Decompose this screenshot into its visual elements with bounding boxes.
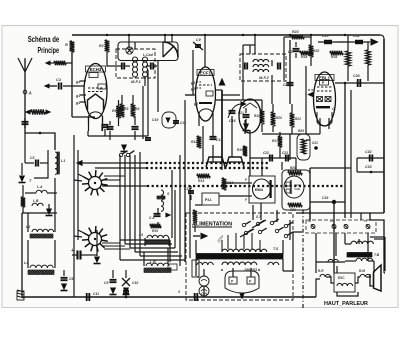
svg-text:EM4: EM4: [255, 188, 264, 192]
svg-text:C19: C19: [322, 196, 328, 200]
tube EBL1: [314, 72, 336, 126]
wire ECF1 grid left: [185, 94, 196, 96]
wire x158 vertical: [157, 60, 159, 112]
tube EBF2 detector: [239, 99, 261, 133]
transformer MF1 dashed box: [116, 49, 155, 78]
svg-text:C.H: C.H: [201, 292, 207, 296]
rectifier plate P right: [247, 277, 255, 284]
pin plate box of ECF1: [206, 91, 213, 96]
wire stubs into power box: [252, 205, 254, 220]
coil L2 with core: [32, 229, 37, 232]
coil L5 with core: [147, 235, 152, 238]
terminal 3: [344, 225, 348, 229]
svg-text:C11: C11: [93, 292, 99, 296]
dashed gang linkage line 2: [146, 167, 270, 169]
coil L4 with core: [30, 265, 36, 268]
ground C10 osc: [124, 288, 129, 293]
junction dots top bus: [106, 34, 108, 36]
terminal 4: [366, 225, 370, 229]
wire left lower frame: [21, 213, 23, 297]
svg-text:C16: C16: [229, 119, 237, 123]
svg-text:C30: C30: [353, 74, 360, 78]
resistor R29: [288, 171, 302, 176]
svg-text:C1: C1: [56, 77, 62, 82]
svg-text:A: A: [28, 91, 32, 96]
wire horizontal y205 lower mid: [195, 204, 202, 206]
wire dial feeds: [128, 35, 130, 48]
svg-text:C.A: C.A: [149, 216, 155, 220]
wire x296 lower vertical: [295, 158, 297, 170]
pin g1 bar of ECF1: [199, 102, 212, 104]
capacitor C13: [210, 136, 217, 138]
capacitor C3: [25, 162, 34, 164]
resistor R19: [243, 146, 247, 156]
svg-text:C3: C3: [30, 156, 34, 160]
svg-text:R4: R4: [135, 107, 139, 111]
resistor R top-left on bus: [70, 41, 75, 52]
wire C12 to bottom bus: [73, 255, 75, 297]
terminal 2: [332, 225, 336, 229]
transformer MF2 dashed box: [240, 54, 286, 81]
wire x310 down to terminals: [309, 210, 311, 220]
box P.U.: [202, 193, 219, 205]
resistor R3: [120, 104, 125, 117]
capacitor C19 blob: [310, 201, 345, 203]
svg-text:CV: CV: [196, 38, 202, 42]
resistor R4: [131, 104, 136, 117]
wire L5 to bundle: [144, 238, 146, 246]
P.U. terminal strip dashed: [306, 220, 376, 233]
pin g1 of ECH3: [80, 94, 86, 96]
wire ECH3 cathode legs: [88, 124, 90, 131]
svg-text:R15: R15: [152, 229, 158, 233]
wire horizontal y196 from PU: [219, 195, 243, 197]
wire top-right net: [284, 36, 291, 38]
svg-text:M.F.1: M.F.1: [131, 79, 142, 84]
tuning dial quadrant with needle: [163, 42, 178, 57]
svg-text:C10: C10: [132, 281, 138, 285]
capacitor C1: [45, 84, 49, 88]
ground C9 osc: [111, 288, 116, 293]
svg-text:g3: g3: [190, 81, 195, 85]
wire top supply bus: [72, 34, 380, 36]
trimmer box CAD: [168, 264, 177, 270]
svg-text:g4: g4: [75, 80, 80, 84]
wire mid horizontal y100 to R21: [262, 100, 292, 104]
power section dashed box: [186, 213, 293, 300]
wire horizontal y95 segment: [222, 94, 240, 96]
pin g2 of ECF1: [196, 87, 201, 89]
wire x213 vertical: [212, 126, 214, 138]
wire grid feed to ECH3: [72, 116, 95, 118]
capacitor C9 mixer: [132, 126, 139, 128]
svg-text:HAUT_PARLEUR: HAUT_PARLEUR: [324, 301, 368, 307]
box around EM4: [249, 176, 275, 203]
arrow mains input: [193, 235, 200, 237]
wire speaker feed verticals: [315, 233, 317, 262]
resistor R1 antenna shunt: [26, 110, 30, 114]
cathode loop of EBL1: [317, 112, 332, 126]
svg-text:C22: C22: [263, 151, 269, 155]
wire between C28 and C32: [338, 41, 348, 43]
wire x203 vertical to bus: [202, 126, 204, 162]
transformer T.S primary coil taps: [227, 235, 229, 249]
transformer T.S filament winding left: [197, 262, 202, 265]
pin arrows into EBL1: [308, 89, 313, 91]
dial lamp box: [118, 42, 178, 61]
svg-text:R17: R17: [272, 139, 278, 143]
svg-text:R22: R22: [313, 49, 319, 53]
output transformer T.B primary: [351, 241, 357, 244]
pilot lamp upper: [199, 276, 209, 286]
wire CV trimmer down to ECF1 grid: [192, 50, 194, 95]
svg-text:R.M: R.M: [359, 269, 365, 273]
svg-text:R.R: R.R: [318, 269, 324, 273]
svg-text:R23: R23: [292, 30, 299, 34]
svg-text:R21: R21: [295, 117, 301, 121]
trimmer capacitor CV: [193, 42, 203, 50]
svg-text:R24: R24: [301, 55, 307, 59]
dial lamp: [126, 47, 133, 54]
wire left vertical from bus: [71, 52, 73, 117]
wire x290 y175 to alim: [289, 134, 291, 160]
diode plates of EBL1: [317, 97, 323, 102]
wire vertical x255: [254, 45, 256, 54]
rectifier tube 1883: [225, 271, 259, 293]
tube ECF1: [196, 67, 216, 121]
svg-text:C19: C19: [152, 118, 158, 122]
wire bundle risers right: [169, 240, 171, 262]
arrow down left: [48, 204, 50, 209]
coil MF2 secondary: [253, 69, 258, 72]
wire under ECH3 bus y136: [87, 131, 89, 136]
svg-text:L5: L5: [139, 233, 143, 237]
wire gang to detector: [244, 146, 246, 156]
svg-text:3: 3: [178, 290, 180, 294]
ground C21: [245, 119, 247, 124]
dashed gang linkage line 1: [146, 162, 270, 164]
svg-text:EXC: EXC: [338, 276, 345, 280]
capacitor C32 top: [348, 41, 370, 43]
capacitor C21: [243, 114, 250, 116]
resistor R13 under gang: [197, 174, 210, 179]
coil L1 with core: [55, 152, 58, 158]
output transformer T.B core: [347, 253, 372, 258]
wire vertical x272 MF2 right down: [271, 75, 273, 104]
resistor R25: [330, 51, 343, 55]
svg-text:70: 70: [364, 219, 368, 223]
resistor R16: [193, 210, 197, 222]
transformer T.S primary coil: [222, 249, 228, 252]
capacitor C top-left coupling: [46, 61, 50, 65]
capacitor MF1 left trimmer: [121, 63, 123, 70]
wire x172 low vertical: [171, 170, 173, 238]
svg-text:P.U.: P.U.: [205, 198, 212, 202]
capacitor C8 below ECH3: [102, 124, 109, 126]
speaker cone: [370, 274, 374, 286]
capacitor C11 on bus: [86, 293, 88, 301]
choke bumps on speaker line: [328, 259, 333, 262]
transformer T.S core: [196, 254, 283, 260]
ground arrow below oscillator: [96, 252, 98, 256]
wave-change switch rotor S1: [89, 177, 102, 190]
wave-change switch rotor S2: [89, 233, 102, 246]
capacitor C30: [357, 79, 359, 87]
svg-text:EBL1: EBL1: [319, 75, 331, 80]
terminal 1: [311, 225, 315, 229]
resistor R21 vertical: [290, 113, 295, 127]
dashed gang linkage line 3: [147, 185, 345, 187]
svg-text:T.S: T.S: [273, 247, 279, 251]
capacitor C-H on bus: [194, 293, 196, 301]
wire power section verticals: [195, 240, 197, 254]
wire EBL1 cathode returns: [319, 129, 321, 134]
gang linkage line 3 solid part: [102, 185, 147, 187]
arrow to output: [371, 39, 378, 45]
terminal Terre bottom left: [17, 291, 24, 300]
wire left mid vertical x78: [77, 150, 79, 240]
wire speaker top feed: [370, 236, 385, 238]
anode structure of ECH3: [88, 94, 104, 110]
wire right speaker top link: [374, 238, 384, 240]
wire horizontal y100 grid line: [216, 99, 243, 101]
wire right column x345: [344, 83, 346, 218]
ground left with arrow: [21, 163, 23, 175]
svg-text:R20: R20: [276, 116, 282, 120]
resistor R2 from bus: [105, 40, 110, 52]
resistor R22 vertical: [309, 45, 314, 57]
svg-text:C27: C27: [288, 50, 295, 54]
resistor R5 left: [21, 197, 25, 207]
wire y213 dashes right: [296, 212, 370, 214]
node A antenna terminal: [23, 90, 27, 94]
capacitor C24: [287, 82, 294, 84]
wire HT output right: [283, 232, 302, 271]
svg-text:g2: g2: [190, 87, 195, 91]
wire MF2 leads: [249, 45, 251, 54]
svg-text:C13: C13: [216, 138, 222, 142]
wire speaker bottom loop: [316, 279, 320, 297]
pilot lamp lower: [199, 286, 209, 296]
variable capacitor gang section 2: [226, 157, 244, 167]
coil MF2 primary: [253, 59, 258, 62]
wire x361 vertical stub: [360, 213, 362, 220]
svg-text:M.F.2: M.F.2: [259, 75, 270, 80]
wire rectifier plate risers: [232, 268, 234, 277]
capacitor C14: [173, 120, 179, 122]
wire S1 taps to bundle: [104, 179, 120, 181]
wire vertical x306: [305, 66, 307, 134]
coil MF osc stacked: [161, 190, 164, 195]
wire vertical x284: [283, 60, 285, 80]
wire L.B coil leads: [143, 252, 145, 266]
trimmer C19 loop: [162, 112, 176, 128]
capacitor C33: [357, 171, 384, 173]
svg-text:L1: L1: [61, 159, 65, 163]
capacitor MF1 right trimmer: [150, 63, 152, 70]
wire EBL1 plate to C30: [335, 82, 384, 84]
wire ECF1 vertical feed: [204, 35, 206, 67]
block box right of bundle: [192, 260, 199, 277]
capacitor MF2 left: [244, 63, 246, 70]
wire starburst S2 leads left: [74, 236, 82, 237]
svg-text:C28: C28: [322, 34, 329, 38]
resistor R.R left: [320, 274, 325, 277]
wire R2 to MF1 left cap: [107, 60, 117, 66]
wire x222 arrow line down to linkage: [221, 163, 223, 170]
wire vertical x250 detector: [249, 130, 251, 176]
wire bottom ground bus: [22, 296, 316, 298]
capacitor C32 right: [357, 157, 384, 159]
wire rectifier cathode down: [241, 293, 243, 297]
resistor R17 vertical: [278, 136, 282, 147]
svg-text:R2: R2: [99, 44, 104, 48]
capacitor C6: [61, 277, 68, 279]
svg-text:R12: R12: [191, 140, 197, 144]
box AF triode unit: [282, 170, 310, 210]
switch on bus: [125, 290, 127, 297]
svg-text:R25: R25: [331, 55, 337, 59]
wire left mid vertical x74: [73, 135, 75, 252]
wire vertical x290 long: [289, 40, 291, 104]
coil MF1 secondary: [143, 57, 146, 62]
wire x232 vertical: [231, 116, 233, 157]
capacitor C17: [188, 190, 194, 192]
anode bar of EBL1: [316, 106, 330, 108]
svg-text:L.A: L.A: [37, 185, 43, 189]
ground C6: [62, 284, 67, 289]
coil L.B osc with core: [146, 263, 152, 266]
svg-text:R18: R18: [254, 114, 260, 118]
gang linkage line 2 solid part: [95, 167, 146, 169]
wire terminal 4 down: [367, 233, 369, 261]
wire antenna to coil box: [25, 128, 55, 150]
capacitor C9 osc: [110, 279, 117, 281]
transformer T.S secondary HT: [222, 262, 228, 265]
svg-text:ECF1: ECF1: [200, 70, 212, 75]
pin g3 of ECH3: [80, 101, 86, 103]
resistor R23: [291, 35, 304, 40]
wire anode ECF1 up with arrow: [221, 90, 223, 163]
grid wires inside ECF1: [199, 84, 212, 86]
wire y140 segment right of EM4 box: [306, 139, 310, 141]
wire MF1 bottom to gang: [142, 86, 144, 139]
svg-text:C17: C17: [184, 187, 190, 191]
wire bundle from switch S2: [102, 242, 120, 244]
svg-text:C23: C23: [282, 151, 288, 155]
variable capacitor gang section 1: [206, 157, 225, 167]
wire vertical x243 MF2 down: [242, 45, 244, 100]
svg-text:C9: C9: [104, 281, 108, 285]
capacitor C22 on AVC line: [250, 157, 296, 159]
pin g4 of ECH3: [80, 80, 86, 82]
svg-text:L.Cad: L.Cad: [143, 53, 154, 57]
switch contacts under mixer: [119, 153, 122, 156]
wire top bus riser x255: [254, 35, 256, 45]
capacitor MF2 right: [277, 63, 279, 70]
svg-text:g3: g3: [75, 101, 80, 105]
gang linkage line 1 solid part with arrow: [77, 161, 82, 166]
svg-text:Principe: Principe: [38, 46, 60, 55]
wire speaker net: [345, 243, 351, 245]
wire y45 MF2 top lead: [243, 44, 255, 46]
wire right column x351: [350, 90, 352, 218]
svg-text:L.B: L.B: [150, 260, 156, 264]
capacitor C12 electrolytic: [76, 251, 78, 260]
svg-text:g1: g1: [193, 102, 198, 106]
svg-text:L.B: L.B: [33, 199, 39, 203]
output transformer T.B secondary: [356, 258, 362, 261]
svg-text:R13: R13: [198, 179, 204, 183]
svg-text:R26: R26: [298, 129, 304, 133]
wire horizontal y168 to right column: [310, 167, 351, 169]
bus junction dots: [125, 296, 128, 299]
svg-text:C32: C32: [353, 34, 360, 38]
field coil EXC box: [334, 273, 355, 292]
wire starburst S1 leads left: [74, 180, 82, 181]
wire EM4 left pins: [243, 182, 252, 184]
svg-text:C31: C31: [312, 141, 318, 145]
capacitor C15: [154, 213, 161, 215]
coil MF1 primary: [133, 57, 136, 62]
grid wires inside EBL1: [317, 86, 332, 88]
wire x158 to L5 coil: [157, 208, 159, 215]
wire MF1 connections: [134, 42, 136, 49]
resistor R15 small: [150, 224, 161, 228]
wire horizontal y90 segment: [215, 89, 222, 91]
svg-text:R3: R3: [124, 107, 128, 111]
capacitor C27: [293, 48, 300, 50]
wire y262 speaker link: [316, 261, 345, 263]
svg-text:R29: R29: [290, 166, 296, 170]
svg-text:10: 10: [330, 219, 334, 223]
wire bundle verticals: [119, 155, 121, 240]
capacitor C28: [318, 41, 338, 43]
tube ECH3: [84, 64, 107, 119]
pin g3 of ECF1: [196, 81, 201, 83]
svg-text:C24: C24: [283, 83, 289, 87]
tube EM4 magic eye: [253, 179, 271, 199]
resistor R14 vertical: [222, 178, 227, 190]
ground mixer: [122, 145, 127, 150]
svg-text:Schéma de: Schéma de: [28, 35, 60, 44]
trimmer C10 osc cross: [122, 278, 130, 286]
selector blade lines: [252, 220, 266, 228]
wire EM4 feed horizontal y183: [230, 182, 243, 184]
svg-text:R: R: [65, 42, 68, 47]
resistor R.M right: [360, 274, 365, 277]
svg-text:g1: g1: [75, 94, 80, 98]
wire right frame lower jog: [370, 213, 384, 260]
wire right x384 to speaker area: [383, 260, 385, 273]
svg-text:C6: C6: [69, 277, 74, 281]
wire x165 vertical: [164, 35, 166, 42]
wire x262 lower vertical: [261, 158, 263, 176]
capacitor C2: [24, 118, 26, 128]
coil L.A: [36, 190, 42, 193]
resistor R27 vertical dashed: [366, 50, 371, 65]
wire x74 to oscillator cap: [73, 252, 75, 255]
resistor R27 box: [297, 134, 310, 160]
rectifier plate P left: [229, 277, 237, 284]
wire horizontal y134 segment: [262, 133, 310, 135]
resistor R6 beside ECH3: [116, 106, 121, 118]
resistor R26 vertical right: [346, 51, 351, 66]
svg-text:C32: C32: [365, 150, 372, 154]
resistor R18 vertical: [260, 110, 265, 124]
coil L.B: [32, 203, 38, 206]
wire right frame vertical: [383, 39, 385, 213]
